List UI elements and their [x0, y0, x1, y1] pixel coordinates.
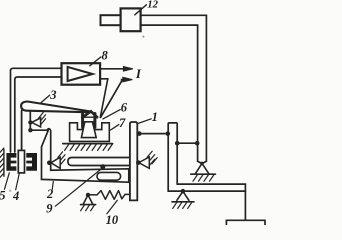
- spring 10: [88, 191, 130, 200]
- svg-text:5: 5: [0, 189, 5, 203]
- shaft from 12: top line: [141, 14, 207, 16]
- bottom rod upper: [177, 184, 245, 220]
- output arrow 2 line from jet pivot: [101, 80, 123, 118]
- svg-text:12: 12: [147, 0, 158, 11]
- pivot P4 under shaft: [200, 162, 204, 166]
- shaft outer vertical: [202, 15, 206, 163]
- armature stem: [21, 111, 23, 151]
- pin node 9: [100, 164, 105, 169]
- node on n-link left leg: [166, 131, 171, 136]
- svg-text:9: 9: [46, 202, 53, 216]
- pivot P2 for lever 2: [51, 157, 60, 168]
- bottom rod lower: [168, 190, 245, 192]
- amplifier U8 box: [62, 63, 101, 84]
- damper 12 body: [121, 8, 141, 31]
- amplifier triangle: [68, 67, 93, 81]
- leader to 2: [52, 182, 53, 190]
- damper body 12 left stub: [101, 15, 121, 25]
- leader to 8: [90, 57, 101, 66]
- svg-text:3: 3: [49, 88, 56, 102]
- link from lever 3 down: [29, 112, 31, 130]
- ground under valve 7: [63, 143, 113, 145]
- node at pivot P3: [136, 160, 141, 165]
- jet pipe 6 (roof + legs): [82, 111, 97, 117]
- leader to 5: [5, 173, 10, 189]
- node at P6 apex: [181, 189, 186, 194]
- svg-text:7: 7: [119, 116, 126, 130]
- leader to 7: [111, 125, 119, 130]
- leader to 3: [41, 95, 50, 103]
- shaft from 12: bottom line: [141, 24, 198, 26]
- piston box at bottom: [226, 220, 265, 225]
- leader line to 12: [135, 5, 147, 15]
- slot in lever 2 arm: [97, 172, 121, 180]
- leader to 4: [16, 174, 20, 190]
- hatching under P4: [193, 175, 214, 182]
- node at lever 2 top: [47, 128, 52, 133]
- pivot P6 on bottom rod: [177, 191, 189, 200]
- node on n-link right leg: [175, 141, 180, 146]
- node at pivot P1: [28, 120, 32, 124]
- link n-link to shaft: [177, 142, 197, 144]
- speck between labels: [9, 190, 11, 192]
- lever 2 (L-shaped strip): [42, 129, 129, 182]
- armature: [18, 150, 24, 173]
- node on shaft line: [195, 141, 200, 146]
- pivot P1 on link: [32, 118, 41, 127]
- wire from U8 to magnet 5 (outer): [11, 68, 62, 152]
- lever 9 (slotted bar): [68, 158, 130, 166]
- leader to 10: [107, 200, 117, 214]
- svg-text:I: I: [135, 66, 142, 81]
- svg-text:8: 8: [102, 48, 109, 62]
- leader to 1: [138, 119, 151, 124]
- electromagnet 5 (E-core): [6, 153, 16, 171]
- shaft inner vertical: [198, 25, 202, 164]
- node on lever1: [137, 131, 142, 136]
- wall + hatching left of magnet 5: [3, 150, 5, 177]
- node at link corner: [28, 128, 32, 132]
- svg-text:4: 4: [12, 189, 19, 203]
- output arrow 1: [100, 68, 124, 70]
- lever 1 (vertical strip): [130, 122, 137, 200]
- speck under box 12: [142, 36, 144, 38]
- feedback line jet to U8: [100, 79, 108, 118]
- pivot P3 for lever 1: [139, 157, 150, 168]
- leader to 9: [55, 168, 102, 206]
- n-link (inverted U): [168, 123, 177, 191]
- valve body 7: [70, 122, 110, 142]
- lever 3 (tapered arm): [21, 102, 91, 113]
- link lever1 to n-link: [137, 133, 168, 135]
- horizontal link to lever 2: [30, 129, 49, 131]
- valve inner trapezoid: [81, 122, 96, 138]
- spring 10 support P5: [86, 193, 90, 197]
- svg-text:6: 6: [121, 100, 128, 114]
- svg-text:1: 1: [152, 110, 158, 124]
- wire from U8 to armature (inner): [15, 77, 62, 152]
- svg-text:10: 10: [106, 213, 119, 225]
- node at pivot P2: [47, 161, 52, 166]
- electromagnet 4 (mirrored E-core): [26, 153, 37, 171]
- leader to 6: [103, 110, 120, 119]
